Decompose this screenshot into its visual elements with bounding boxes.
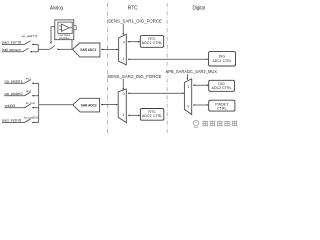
svg-text:en_bat: en_bat bbox=[26, 101, 35, 105]
svg-text:0: 0 bbox=[123, 92, 125, 96]
svg-text:SAR ADC2: SAR ADC2 bbox=[81, 102, 97, 107]
svg-text:APB_SARADC_SAR2_MUX: APB_SARADC_SAR2_MUX bbox=[166, 69, 218, 74]
svg-text:ADC1 CTRL: ADC1 CTRL bbox=[213, 59, 232, 63]
svg-text:RTC: RTC bbox=[128, 6, 138, 12]
svg-text:SAR ADC1: SAR ADC1 bbox=[80, 47, 97, 52]
svg-text:pad_in[7:0]: pad_in[7:0] bbox=[2, 40, 21, 45]
svg-text:ADC2 CTRL: ADC2 CTRL bbox=[142, 114, 162, 118]
svg-text:en_pad[9:0]: en_pad[9:0] bbox=[24, 116, 39, 120]
svg-text:ADC1 CTRL: ADC1 CTRL bbox=[142, 41, 162, 45]
svg-text:Analog: Analog bbox=[50, 6, 63, 12]
svg-text:Amplifier: Amplifier bbox=[59, 36, 70, 40]
svg-text:hall sensor: hall sensor bbox=[2, 47, 22, 52]
svg-text:Digital: Digital bbox=[193, 6, 206, 12]
svg-text:SENS_SAR1_DIG_FORCE: SENS_SAR1_DIG_FORCE bbox=[108, 18, 162, 23]
svg-text:en_pad[7:0]: en_pad[7:0] bbox=[22, 34, 37, 38]
svg-text:pa_pkdet1: pa_pkdet1 bbox=[5, 79, 23, 84]
svg-text:en2: en2 bbox=[26, 89, 31, 93]
svg-text:en1: en1 bbox=[26, 76, 31, 80]
svg-text:ADC2 CTRL: ADC2 CTRL bbox=[212, 86, 232, 90]
svg-text:1: 1 bbox=[122, 57, 124, 61]
svg-text:pa_pkdet2: pa_pkdet2 bbox=[5, 91, 23, 96]
svg-text:1: 1 bbox=[122, 113, 124, 117]
svg-text:0: 0 bbox=[187, 104, 189, 108]
svg-text:1: 1 bbox=[188, 85, 190, 89]
svg-text:CTRL: CTRL bbox=[217, 107, 226, 111]
svg-text:DIG: DIG bbox=[219, 54, 226, 58]
svg-text:vdd33: vdd33 bbox=[5, 103, 16, 108]
svg-text:pad_in[9:0]: pad_in[9:0] bbox=[2, 118, 21, 123]
svg-text:SENS_SAR2_DIG_FORCE: SENS_SAR2_DIG_FORCE bbox=[108, 74, 162, 79]
svg-text:0: 0 bbox=[123, 40, 125, 44]
